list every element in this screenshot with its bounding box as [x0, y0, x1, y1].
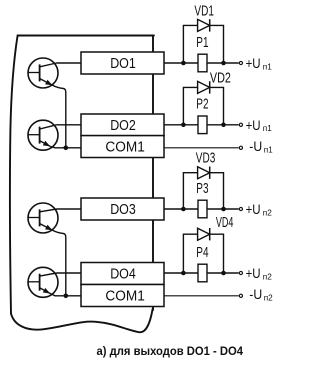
svg-text:+U: +U [246, 55, 261, 71]
svg-text:-U: -U [249, 286, 262, 302]
svg-text:P3: P3 [196, 181, 208, 197]
svg-text:P2: P2 [196, 97, 208, 113]
svg-text:п1: п1 [263, 62, 272, 71]
svg-text:DO1: DO1 [110, 56, 136, 72]
svg-text:п2: п2 [263, 272, 272, 281]
svg-text:VD3: VD3 [196, 150, 216, 166]
svg-text:VD2: VD2 [210, 71, 231, 87]
svg-text:п1: п1 [264, 145, 273, 154]
svg-text:п2: п2 [263, 208, 272, 217]
svg-text:+U: +U [246, 265, 261, 281]
svg-text:DO3: DO3 [110, 202, 136, 218]
svg-text:P1: P1 [196, 35, 208, 51]
svg-text:п1: п1 [263, 124, 272, 133]
svg-text:VD1: VD1 [194, 3, 214, 19]
svg-text:COM1: COM1 [105, 140, 144, 156]
svg-text:+U: +U [246, 117, 261, 133]
svg-text:а) для выходов DO1 - DO4: а) для выходов DO1 - DO4 [97, 344, 244, 358]
svg-text:п2: п2 [264, 293, 273, 302]
svg-text:P4: P4 [196, 245, 208, 261]
svg-text:DO2: DO2 [110, 118, 136, 134]
svg-text:VD4: VD4 [216, 215, 234, 231]
svg-text:-U: -U [249, 138, 262, 154]
svg-text:DO4: DO4 [110, 267, 136, 283]
svg-text:COM1: COM1 [105, 289, 144, 305]
svg-text:+U: +U [246, 201, 261, 217]
